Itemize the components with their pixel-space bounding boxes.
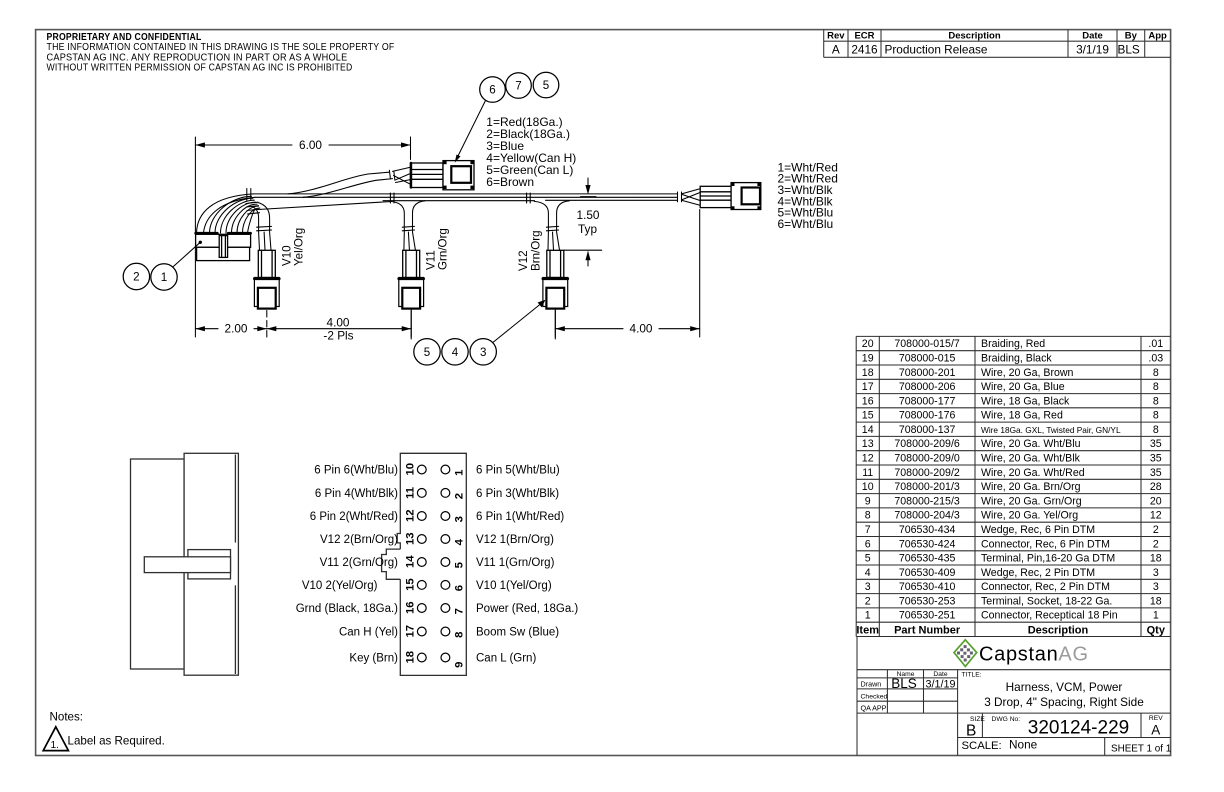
svg-text:4: 4 — [865, 567, 871, 579]
svg-text:708000-206: 708000-206 — [899, 381, 956, 393]
svg-text:320124-229: 320124-229 — [1028, 718, 1129, 739]
pin 12 — [417, 512, 426, 521]
svg-text:6.00: 6.00 — [299, 138, 322, 152]
svg-text:Production Release: Production Release — [885, 42, 988, 56]
svg-text:8: 8 — [1153, 395, 1159, 407]
svg-text:3: 3 — [1153, 581, 1159, 593]
svg-text:Yel/Org: Yel/Org — [293, 228, 306, 266]
svg-text:15: 15 — [862, 410, 874, 422]
svg-text:708000-137: 708000-137 — [899, 424, 956, 436]
pin 13 — [417, 535, 426, 544]
svg-text:708000-204/3: 708000-204/3 — [894, 510, 959, 522]
pinout pins and numbers — [404, 463, 465, 668]
pin 11 — [417, 489, 426, 498]
pin 9 — [441, 653, 450, 662]
balloon 6 — [480, 77, 506, 103]
centerline V11 — [410, 311, 412, 340]
svg-text:8: 8 — [1153, 410, 1159, 422]
svg-text:V12 2(Brn/Org): V12 2(Brn/Org) — [320, 534, 398, 546]
svg-text:8: 8 — [453, 632, 465, 638]
svg-text:.01: .01 — [1148, 338, 1163, 350]
svg-text:1: 1 — [453, 470, 465, 476]
dimension 2.00 — [195, 248, 266, 337]
svg-text:Key (Brn): Key (Brn) — [349, 653, 398, 665]
harness drawing — [123, 72, 838, 365]
svg-text:Typ: Typ — [578, 222, 597, 236]
svg-text:706530-410: 706530-410 — [899, 581, 956, 593]
svg-text:Can L (Grn): Can L (Grn) — [476, 653, 536, 665]
svg-text:706530-409: 706530-409 — [899, 567, 956, 579]
svg-text:6 Pin 2(Wht/Red): 6 Pin 2(Wht/Red) — [310, 511, 398, 523]
leader balloon 3 to V12 — [493, 302, 543, 343]
svg-text:Label as Required.: Label as Required. — [68, 735, 165, 748]
leader balloon 1 to J1 — [173, 243, 200, 267]
svg-text:2.00: 2.00 — [225, 322, 248, 336]
svg-text:Power (Red, 18Ga.): Power (Red, 18Ga.) — [476, 603, 578, 615]
svg-text:WITHOUT WRITTEN PERMISSION OF: WITHOUT WRITTEN PERMISSION OF CAPSTAN AG… — [47, 63, 353, 74]
svg-text:Qty: Qty — [1147, 624, 1166, 636]
drop V11: wires — [390, 201, 425, 250]
svg-text:6 Pin 5(Wht/Blu): 6 Pin 5(Wht/Blu) — [476, 465, 560, 477]
svg-text:708000-209/6: 708000-209/6 — [894, 438, 959, 450]
svg-text:Wedge, Rec, 6 Pin DTM: Wedge, Rec, 6 Pin DTM — [981, 524, 1095, 536]
pin 16 — [417, 604, 426, 613]
svg-text:1: 1 — [1153, 610, 1159, 622]
svg-text:Drawn: Drawn — [861, 680, 882, 689]
svg-text:2: 2 — [453, 493, 465, 499]
svg-text:35: 35 — [1150, 453, 1162, 465]
svg-text:Date: Date — [1082, 31, 1103, 42]
note 1 flag triangle — [43, 727, 68, 751]
pin 3 — [441, 512, 450, 521]
svg-text:35: 35 — [1150, 467, 1162, 479]
svg-text:SCALE:: SCALE: — [962, 740, 1002, 752]
svg-text:9: 9 — [865, 495, 871, 507]
svg-text:9: 9 — [453, 662, 465, 668]
svg-text:708000-177: 708000-177 — [899, 395, 956, 407]
connector side view — [131, 453, 239, 675]
label V12 Brn/Org — [517, 230, 543, 271]
svg-text:17: 17 — [862, 381, 874, 393]
balloon 3 — [470, 339, 496, 365]
svg-text:A: A — [1151, 723, 1160, 738]
svg-text:2: 2 — [1153, 524, 1159, 536]
balloon 5 top — [533, 72, 559, 98]
dimension 6.00 — [195, 137, 410, 233]
pin 10 — [417, 465, 426, 474]
svg-text:13: 13 — [862, 438, 874, 450]
pin 17 — [417, 627, 426, 636]
connector J1: 18-pin receptacle — [196, 233, 251, 260]
svg-text:V10 2(Yel/Org): V10 2(Yel/Org) — [302, 580, 378, 592]
dimension 4.00 -2 Pls — [267, 310, 411, 338]
svg-text:App: App — [1148, 31, 1167, 42]
svg-text:20: 20 — [1150, 495, 1162, 507]
svg-text:4.00: 4.00 — [630, 322, 653, 336]
drop V12: wires — [534, 201, 569, 250]
balloon 7 — [506, 73, 532, 99]
svg-text:3: 3 — [865, 581, 871, 593]
svg-text:5: 5 — [865, 553, 871, 565]
svg-text:1.: 1. — [51, 740, 60, 751]
pinout keying tab — [382, 549, 401, 579]
svg-text:2416: 2416 — [851, 42, 878, 56]
svg-text:Notes:: Notes: — [50, 711, 84, 724]
label V10 Yel/Org — [281, 228, 306, 266]
svg-text:Wire, 20 Ga. Yel/Org: Wire, 20 Ga. Yel/Org — [981, 510, 1078, 522]
svg-text:708000-209/0: 708000-209/0 — [894, 453, 959, 465]
svg-text:2: 2 — [133, 271, 139, 284]
svg-text:708000-215/3: 708000-215/3 — [894, 495, 959, 507]
svg-text:REV: REV — [1149, 715, 1163, 722]
svg-text:Connector, Receptical 18 Pin: Connector, Receptical 18 Pin — [981, 610, 1118, 622]
svg-text:Harness, VCM, Power: Harness, VCM, Power — [1006, 680, 1123, 694]
wire bundle from J1 — [197, 194, 260, 233]
dimension 4.00 right — [555, 210, 699, 338]
svg-text:4: 4 — [452, 346, 459, 359]
svg-text:5: 5 — [424, 346, 430, 359]
svg-text:.03: .03 — [1148, 353, 1163, 365]
svg-text:706530-251: 706530-251 — [899, 610, 956, 622]
balloon 2 — [123, 263, 149, 289]
pin 4 — [441, 535, 450, 544]
svg-text:Connector, Rec, 2 Pin DTM: Connector, Rec, 2 Pin DTM — [981, 581, 1110, 593]
svg-text:3/1/19: 3/1/19 — [925, 678, 955, 690]
svg-text:Wire, 20 Ga. Wht/Red: Wire, 20 Ga. Wht/Red — [981, 467, 1085, 479]
svg-text:Braiding, Red: Braiding, Red — [981, 338, 1045, 350]
svg-text:Boom Sw (Blue): Boom Sw (Blue) — [476, 627, 559, 639]
svg-text:12: 12 — [862, 453, 874, 465]
svg-text:18: 18 — [404, 651, 416, 664]
svg-text:ECR: ECR — [854, 31, 874, 42]
title block — [857, 637, 1171, 756]
svg-text:Item: Item — [856, 624, 879, 636]
svg-text:18: 18 — [1150, 595, 1162, 607]
centerline V10 — [266, 311, 268, 340]
svg-text:Grn/Org: Grn/Org — [437, 228, 450, 270]
branch wires to 6-pin connector — [288, 167, 410, 197]
svg-text:1: 1 — [865, 610, 871, 622]
pin 6 — [441, 581, 450, 590]
svg-text:6 Pin 1(Wht/Red): 6 Pin 1(Wht/Red) — [476, 511, 564, 523]
dimension 1.50 Typ — [564, 178, 602, 266]
svg-text:Wedge, Rec, 2 Pin DTM: Wedge, Rec, 2 Pin DTM — [981, 567, 1095, 579]
svg-text:708000-015: 708000-015 — [899, 353, 956, 365]
svg-text:11: 11 — [862, 467, 873, 479]
svg-text:SHEET 1 of 1: SHEET 1 of 1 — [1111, 744, 1172, 755]
pin 18 — [417, 653, 426, 662]
svg-text:10: 10 — [404, 463, 416, 476]
svg-text:8: 8 — [865, 510, 871, 522]
splice ticks on trunk — [390, 193, 530, 203]
svg-text:1: 1 — [161, 271, 167, 284]
svg-text:10: 10 — [862, 481, 874, 493]
pin 1 — [441, 465, 450, 474]
svg-text:Can H (Yel): Can H (Yel) — [339, 627, 398, 639]
svg-text:4: 4 — [453, 538, 465, 545]
svg-text:2: 2 — [865, 595, 871, 607]
svg-text:15: 15 — [404, 578, 416, 591]
svg-text:V11 2(Grn/Org): V11 2(Grn/Org) — [320, 557, 399, 569]
connector V12: 2-pin DTM drop — [543, 250, 568, 308]
connector P5: 2-pin DTM right — [700, 183, 761, 210]
connector V11: 2-pin DTM drop — [399, 250, 424, 308]
svg-text:BLS: BLS — [1118, 42, 1140, 56]
svg-text:Wire, 18 Ga, Red: Wire, 18 Ga, Red — [981, 410, 1063, 422]
svg-text:QA APP: QA APP — [861, 704, 887, 713]
svg-text:13: 13 — [404, 532, 416, 545]
svg-text:3 Drop, 4" Spacing, Right Side: 3 Drop, 4" Spacing, Right Side — [984, 695, 1144, 709]
pin 2 — [441, 489, 450, 498]
6-pin wire legend — [486, 115, 576, 189]
svg-text:Terminal, Pin,16-20 Ga DTM: Terminal, Pin,16-20 Ga DTM — [981, 553, 1115, 565]
svg-text:20: 20 — [862, 338, 874, 350]
svg-text:A: A — [832, 42, 840, 56]
svg-text:3/1/19: 3/1/19 — [1076, 42, 1109, 56]
svg-text:V12: V12 — [517, 250, 530, 271]
svg-text:12: 12 — [404, 509, 416, 522]
revision table — [824, 30, 1171, 58]
svg-text:6: 6 — [489, 84, 495, 97]
leader balloon 6 to P2 — [456, 101, 486, 161]
centerline V12 — [554, 311, 556, 340]
trunk wires — [253, 194, 678, 210]
pin 14 — [417, 558, 426, 567]
svg-text:3: 3 — [1153, 567, 1159, 579]
connector P2: 6-pin DTM — [410, 161, 474, 190]
svg-text:V10 1(Yel/Org): V10 1(Yel/Org) — [476, 580, 552, 592]
svg-text:6: 6 — [865, 538, 871, 550]
pin 15 — [417, 581, 426, 590]
svg-text:6=Brown: 6=Brown — [486, 175, 534, 189]
svg-text:1.50: 1.50 — [577, 208, 600, 222]
svg-text:-2 Pls: -2 Pls — [323, 328, 353, 342]
BOM parts list table — [856, 336, 1170, 636]
svg-text:3: 3 — [480, 346, 486, 359]
svg-text:3: 3 — [453, 516, 465, 522]
svg-text:6 Pin 3(Wht/Blk): 6 Pin 3(Wht/Blk) — [476, 488, 559, 500]
svg-text:17: 17 — [404, 625, 416, 638]
svg-text:2: 2 — [1153, 538, 1159, 550]
svg-text:7: 7 — [515, 80, 521, 93]
label V11 Grn/Org — [425, 228, 450, 270]
svg-text:Wire, 20 Ga, Blue: Wire, 20 Ga, Blue — [981, 381, 1065, 393]
svg-text:708000-176: 708000-176 — [899, 410, 956, 422]
svg-text:Wire, 20 Ga. Wht/Blu: Wire, 20 Ga. Wht/Blu — [981, 438, 1081, 450]
svg-text:18: 18 — [1150, 553, 1162, 565]
pin 8 — [441, 627, 450, 636]
svg-text:By: By — [1125, 31, 1138, 42]
svg-text:706530-435: 706530-435 — [899, 553, 956, 565]
svg-text:Rev: Rev — [827, 31, 845, 42]
wires fan to right connector — [678, 189, 701, 206]
svg-text:8: 8 — [1153, 381, 1159, 393]
svg-text:Brn/Org: Brn/Org — [530, 230, 543, 271]
svg-text:706530-424: 706530-424 — [899, 538, 956, 550]
svg-text:5: 5 — [453, 562, 465, 568]
pinout labels — [296, 465, 579, 665]
svg-text:Wire, 20 Ga. Brn/Org: Wire, 20 Ga. Brn/Org — [981, 481, 1081, 493]
svg-text:28: 28 — [1150, 481, 1162, 493]
svg-text:708000-015/7: 708000-015/7 — [894, 338, 959, 350]
svg-text:16: 16 — [404, 601, 416, 614]
svg-text:Wire, 20 Ga, Brown: Wire, 20 Ga, Brown — [981, 367, 1074, 379]
svg-text:8: 8 — [1153, 424, 1159, 436]
svg-text:TITLE:: TITLE: — [962, 672, 982, 679]
svg-text:Date: Date — [933, 671, 947, 678]
svg-text:706530-253: 706530-253 — [899, 595, 956, 607]
svg-text:35: 35 — [1150, 438, 1162, 450]
svg-text:Wire, 20 Ga. Wht/Blk: Wire, 20 Ga. Wht/Blk — [981, 453, 1081, 465]
svg-text:Braiding, Black: Braiding, Black — [981, 353, 1052, 365]
svg-text:B: B — [966, 723, 976, 740]
svg-text:19: 19 — [862, 353, 874, 365]
balloon 5 bottom — [414, 339, 440, 365]
svg-text:14: 14 — [404, 555, 416, 568]
svg-text:CapstanAG: CapstanAG — [979, 644, 1089, 666]
svg-text:6 Pin 4(Wht/Blk): 6 Pin 4(Wht/Blk) — [315, 488, 398, 500]
svg-text:706530-434: 706530-434 — [899, 524, 956, 536]
svg-text:14: 14 — [862, 424, 874, 436]
drop V10: wires — [252, 203, 272, 251]
balloon 1 — [151, 264, 177, 290]
svg-text:6=Wht/Blu: 6=Wht/Blu — [778, 217, 834, 231]
svg-text:V12 1(Brn/Org): V12 1(Brn/Org) — [476, 534, 554, 546]
svg-text:Connector, Rec, 6 Pin DTM: Connector, Rec, 6 Pin DTM — [981, 538, 1110, 550]
svg-text:11: 11 — [404, 487, 416, 499]
balloon 4 — [442, 339, 468, 365]
svg-text:708000-201/3: 708000-201/3 — [894, 481, 959, 493]
svg-text:Description: Description — [948, 31, 1000, 42]
svg-text:Part Number: Part Number — [894, 624, 961, 636]
svg-text:Grnd (Black, 18Ga.): Grnd (Black, 18Ga.) — [296, 603, 398, 615]
svg-text:6 Pin 6(Wht/Blu): 6 Pin 6(Wht/Blu) — [314, 465, 398, 477]
svg-text:None: None — [1009, 738, 1038, 752]
pinout detail box — [382, 453, 467, 675]
svg-text:Wire 18Ga. GXL, Twisted Pair,: Wire 18Ga. GXL, Twisted Pair, GN/YL — [981, 425, 1121, 435]
svg-text:7: 7 — [865, 524, 871, 536]
svg-text:Terminal, Socket, 18-22 Ga.: Terminal, Socket, 18-22 Ga. — [981, 595, 1112, 607]
proprietary note text — [47, 32, 395, 74]
svg-text:18: 18 — [862, 367, 874, 379]
svg-text:16: 16 — [862, 395, 874, 407]
svg-text:7: 7 — [453, 608, 465, 614]
pin 5 — [441, 558, 450, 567]
svg-text:Wire, 18 Ga, Black: Wire, 18 Ga, Black — [981, 395, 1070, 407]
svg-text:708000-201: 708000-201 — [899, 367, 956, 379]
svg-text:6: 6 — [453, 585, 465, 591]
CapstanAG logo — [954, 640, 1089, 667]
svg-text:12: 12 — [1150, 510, 1162, 522]
svg-text:V11 1(Grn/Org): V11 1(Grn/Org) — [476, 557, 555, 569]
svg-text:Wire, 20 Ga. Grn/Org: Wire, 20 Ga. Grn/Org — [981, 495, 1082, 507]
title block text — [861, 671, 1164, 723]
svg-text:DWG No:: DWG No: — [992, 716, 1021, 723]
connector V10: 2-pin DTM drop — [254, 250, 279, 308]
svg-text:5: 5 — [543, 79, 549, 92]
svg-text:708000-209/2: 708000-209/2 — [894, 467, 959, 479]
svg-text:Checked: Checked — [861, 694, 888, 701]
braiding marks at bend — [246, 189, 260, 215]
svg-text:8: 8 — [1153, 367, 1159, 379]
svg-text:Description: Description — [1028, 624, 1089, 636]
pin 7 — [441, 604, 450, 613]
right connector wire legend — [778, 160, 838, 231]
svg-text:BLS: BLS — [891, 676, 917, 691]
